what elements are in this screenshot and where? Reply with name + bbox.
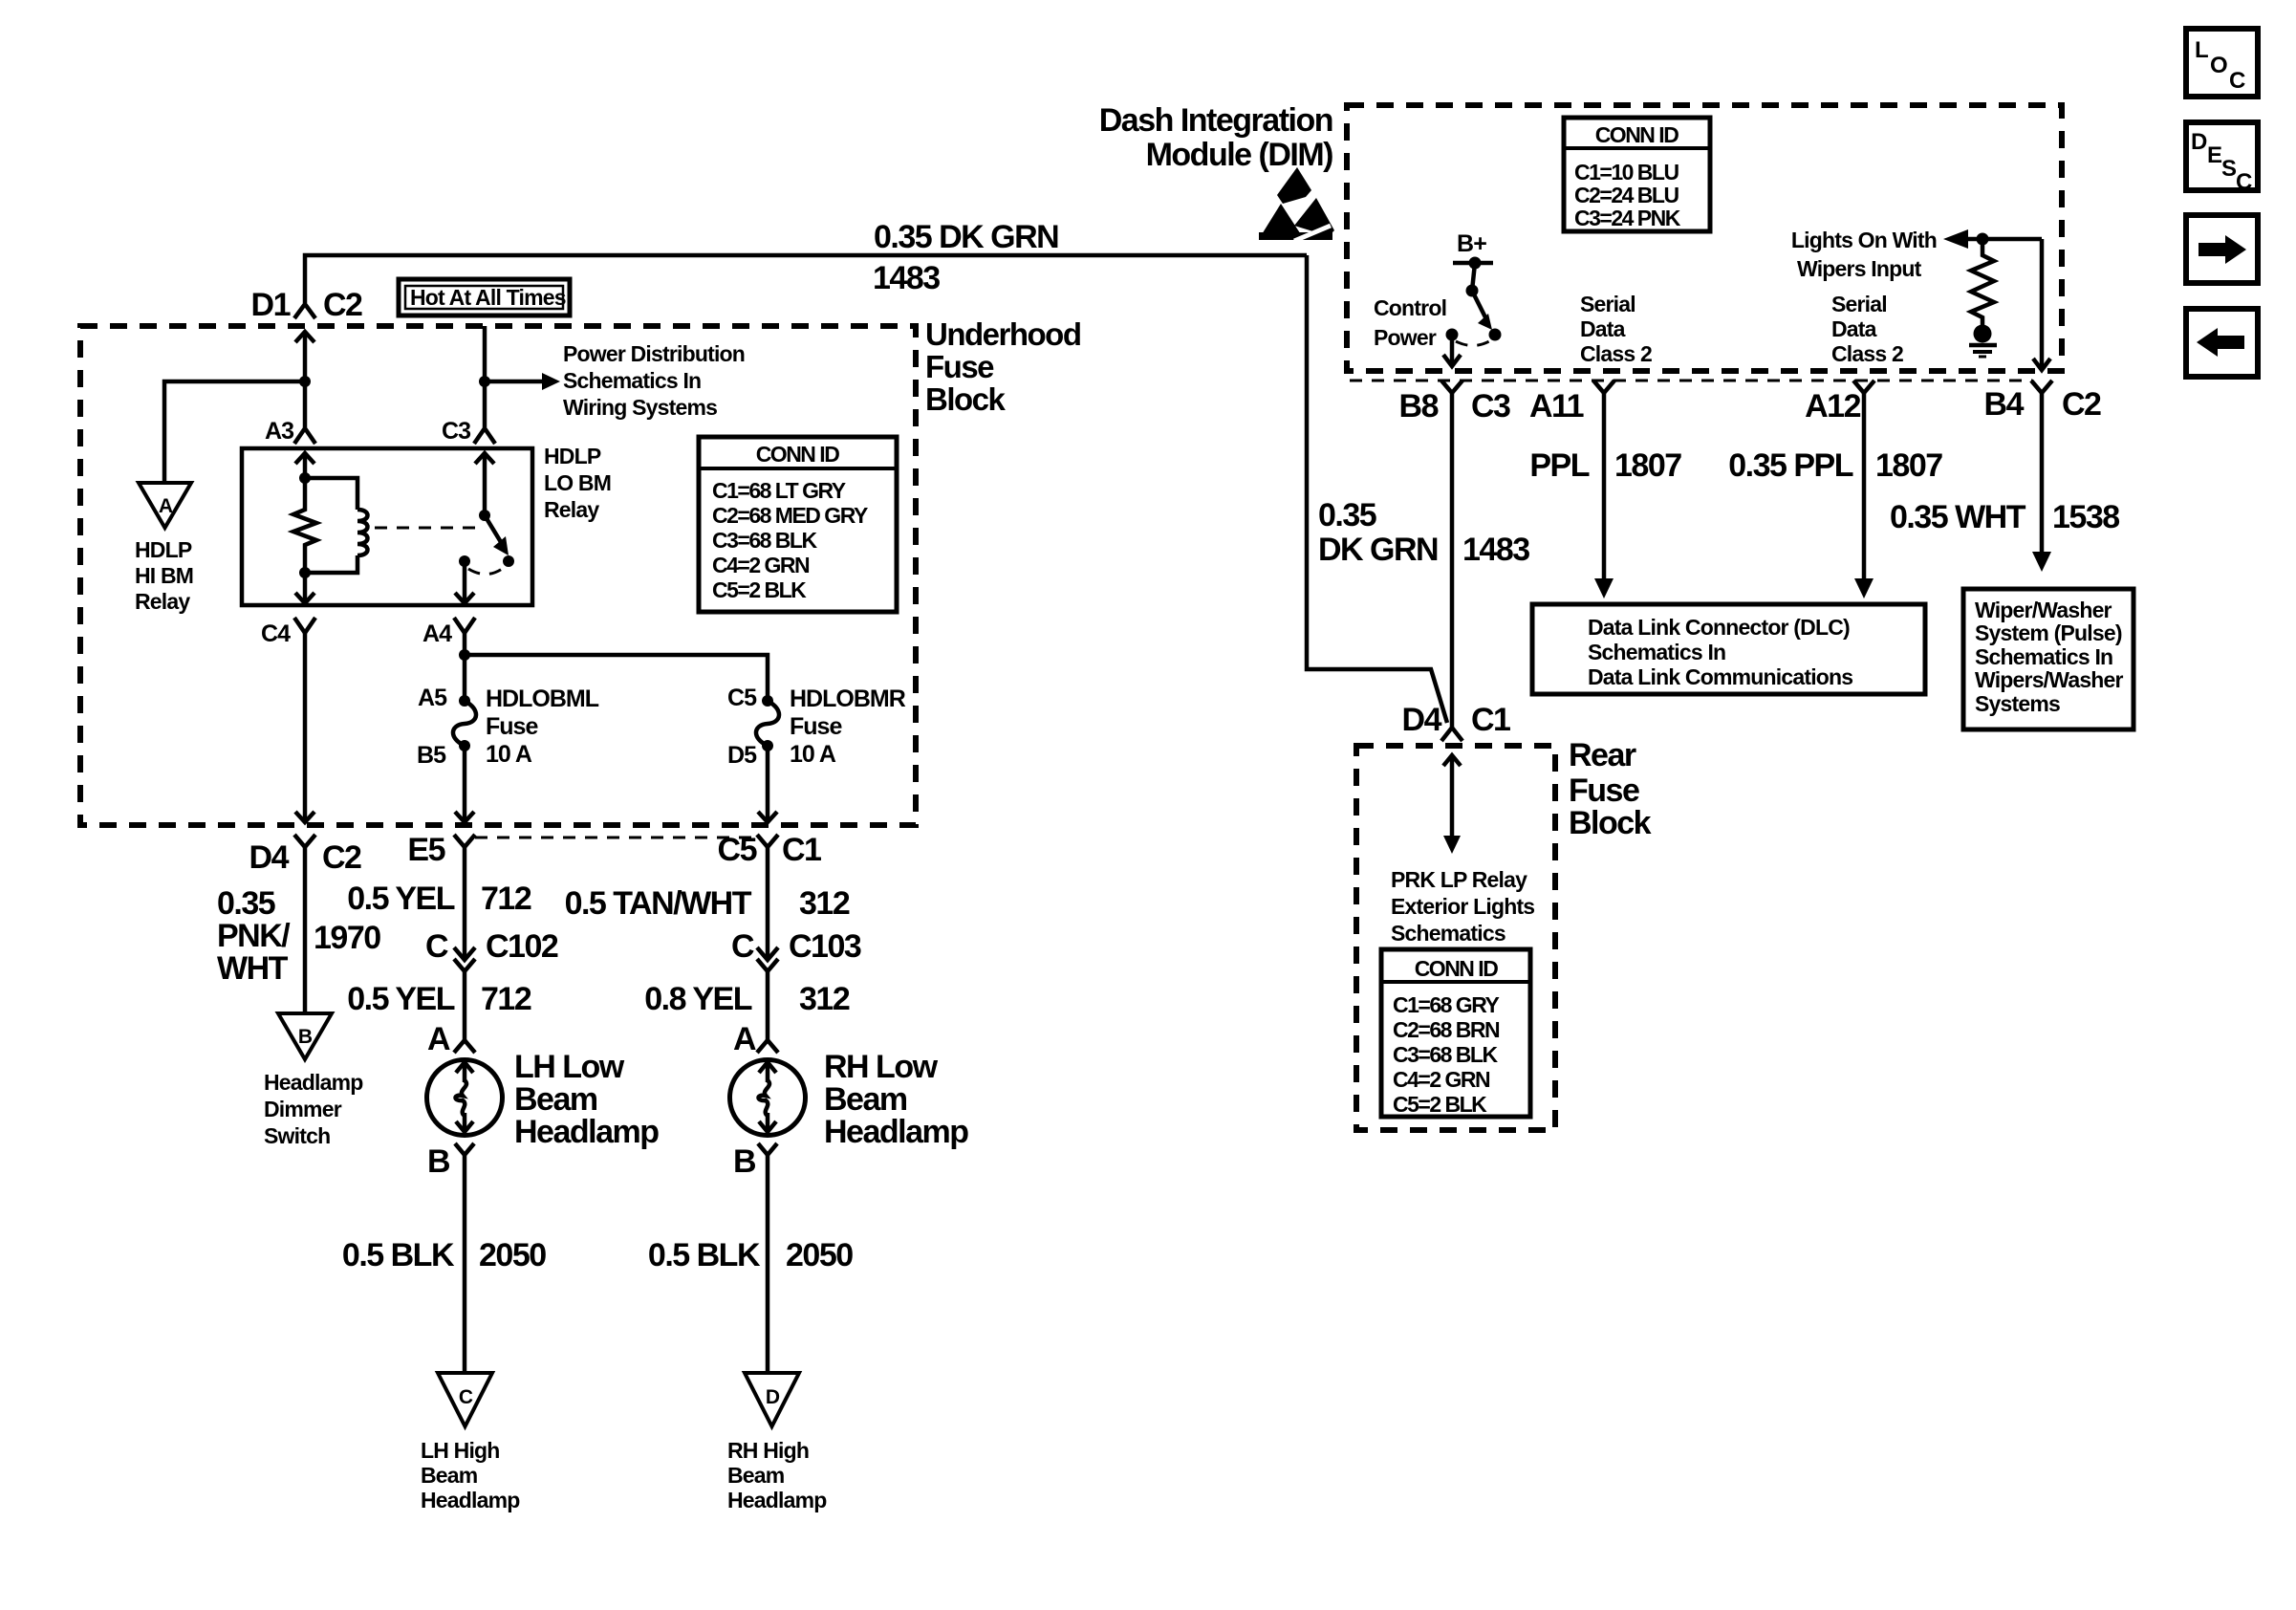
svg-text:B4: B4	[1984, 386, 2025, 423]
wire RH lamp ground	[766, 1155, 770, 1373]
svg-text:HI BM: HI BM	[135, 563, 193, 588]
node B5	[459, 740, 470, 751]
svg-text:Lights On With: Lights On With	[1791, 228, 1937, 252]
svg-text:A: A	[159, 495, 173, 517]
svg-text:Dimmer: Dimmer	[264, 1097, 342, 1121]
wire C4 down to border	[303, 633, 308, 822]
svg-text:C2: C2	[322, 839, 361, 876]
svg-text:C2: C2	[323, 287, 362, 323]
svg-text:CONN ID: CONN ID	[1595, 122, 1679, 147]
svg-text:Beam: Beam	[514, 1081, 597, 1118]
svg-text:System (Pulse): System (Pulse)	[1975, 620, 2122, 645]
svg-text:C: C	[459, 1386, 473, 1408]
wire A11 serial data with arrow	[1602, 393, 1607, 581]
wire D5 to border with down arrow	[766, 746, 770, 822]
svg-text:Schematics In: Schematics In	[1975, 644, 2112, 669]
control power switch blade	[1472, 291, 1486, 319]
svg-text:0.8 YEL: 0.8 YEL	[644, 981, 751, 1017]
node B+	[1469, 257, 1482, 270]
connector C1 DIM thin dashed link	[1350, 380, 2032, 382]
svg-text:0.35 DK GRN: 0.35 DK GRN	[874, 219, 1058, 255]
svg-text:Serial: Serial	[1580, 292, 1635, 316]
wire B8 down to rear fuse block	[1450, 393, 1455, 728]
next page arrow box	[2186, 215, 2258, 283]
off-page triangle A	[139, 483, 191, 528]
svg-text:Beam: Beam	[727, 1463, 785, 1488]
svg-text:C103: C103	[789, 928, 861, 965]
connector E5 fork	[454, 835, 475, 847]
relay switch common entry arrow	[483, 453, 487, 515]
svg-text:2050: 2050	[479, 1237, 546, 1273]
svg-text:10 A: 10 A	[486, 741, 532, 768]
svg-text:Fuse: Fuse	[925, 349, 994, 384]
svg-text:Headlamp: Headlamp	[727, 1488, 827, 1512]
previous page arrow box	[2186, 309, 2258, 377]
svg-text:Beam: Beam	[824, 1081, 907, 1118]
svg-text:C: C	[425, 928, 448, 965]
Rear Fuse Block dashed border	[1356, 746, 1555, 1130]
svg-text:Control: Control	[1374, 295, 1446, 320]
connector B fork RH lamp	[758, 1143, 777, 1155]
svg-text:Power: Power	[1374, 325, 1437, 350]
svg-text:B: B	[298, 1026, 313, 1048]
connector D4/C2 fork bottom	[294, 835, 315, 847]
svg-text:Switch: Switch	[264, 1123, 330, 1148]
relay switch dashed travel arc	[468, 567, 505, 575]
control power switch pivot node	[1466, 285, 1479, 297]
wire LH lamp ground	[463, 1155, 467, 1373]
node relay top junction	[299, 472, 311, 484]
relay box HDLP LO BM	[242, 448, 532, 605]
svg-text:C: C	[731, 928, 754, 965]
wire control power to B8 with down arrow	[1450, 335, 1455, 365]
svg-text:1538: 1538	[2052, 499, 2119, 535]
svg-text:10 A: 10 A	[790, 741, 836, 768]
control power dashed travel arc	[1456, 341, 1489, 346]
svg-text:Rear: Rear	[1569, 737, 1636, 773]
svg-text:Wiper/Washer: Wiper/Washer	[1975, 598, 2112, 622]
CONN ID table rear	[1381, 949, 1530, 1117]
svg-text:0.5 BLK: 0.5 BLK	[648, 1237, 761, 1273]
wire lights-on to B4 with down arrow	[2040, 239, 2045, 368]
svg-text:312: 312	[799, 981, 850, 1017]
connector C1 thin dashed link	[475, 837, 757, 839]
connector A fork RH lamp	[757, 1040, 778, 1053]
Dash Integration Module dashed border	[1347, 105, 2062, 371]
node A4 fuse feed junction	[459, 649, 470, 661]
svg-text:Exterior Lights: Exterior Lights	[1391, 894, 1534, 919]
CONN ID table underhood	[699, 437, 897, 612]
svg-text:LO BM: LO BM	[544, 470, 611, 495]
control power contact node	[1489, 329, 1502, 341]
svg-text:O: O	[2210, 53, 2228, 78]
svg-text:Class 2: Class 2	[1831, 341, 1903, 366]
ESD sensitivity symbol	[1259, 167, 1334, 241]
svg-text:C: C	[2229, 68, 2245, 94]
wire C102 to lamp	[463, 971, 467, 1040]
svg-text:PRK LP Relay: PRK LP Relay	[1391, 867, 1527, 892]
svg-text:HDLOBML: HDLOBML	[486, 685, 599, 712]
svg-text:C1=68 GRY: C1=68 GRY	[1393, 992, 1499, 1017]
B+ terminal bar	[1453, 261, 1493, 266]
inline connector C103	[757, 947, 778, 971]
connector A11 fork	[1593, 381, 1614, 393]
svg-text:S: S	[2221, 156, 2237, 182]
svg-text:D: D	[2191, 129, 2207, 155]
RH low beam headlamp bulb	[730, 1060, 806, 1136]
svg-text:Class 2: Class 2	[1580, 341, 1652, 366]
svg-text:RH High: RH High	[727, 1438, 809, 1463]
svg-text:Dash Integration: Dash Integration	[1099, 102, 1332, 139]
svg-text:LH Low: LH Low	[514, 1049, 625, 1085]
svg-text:Data: Data	[1580, 316, 1626, 341]
node junction C3 branch	[479, 376, 490, 387]
svg-text:LH High: LH High	[421, 1438, 500, 1463]
relay switch pole node	[459, 555, 470, 567]
svg-text:A: A	[733, 1021, 756, 1057]
svg-text:CONN ID: CONN ID	[1415, 956, 1499, 981]
svg-text:1483: 1483	[873, 260, 940, 296]
node D5	[762, 740, 773, 751]
svg-text:Data Link Connector (DLC): Data Link Connector (DLC)	[1588, 615, 1850, 640]
svg-text:1970: 1970	[314, 920, 380, 956]
svg-text:C4: C4	[261, 620, 291, 647]
svg-text:1807: 1807	[1614, 447, 1681, 484]
relay coil-side exit arrow	[303, 573, 308, 603]
svg-text:0.35: 0.35	[217, 885, 275, 922]
svg-text:Schematics: Schematics	[1391, 921, 1505, 946]
svg-text:Data Link Communications: Data Link Communications	[1588, 664, 1852, 689]
wire A12 serial data with arrow	[1862, 393, 1867, 581]
wire 0.35 DK GRN 1483 top horizontal	[305, 255, 1307, 303]
control power switch stem	[1472, 263, 1475, 291]
resistor relay	[293, 478, 316, 573]
relay switch contact node	[503, 555, 514, 567]
relay switch blade	[485, 515, 501, 542]
svg-text:A11: A11	[1529, 388, 1584, 424]
svg-text:E: E	[2207, 142, 2222, 168]
svg-text:Hot At All Times: Hot At All Times	[410, 285, 566, 310]
svg-text:Relay: Relay	[135, 589, 190, 614]
svg-text:DK GRN: DK GRN	[1318, 532, 1438, 568]
connector C3 fork	[474, 428, 495, 444]
CONN ID table DIM	[1564, 118, 1710, 231]
off-page triangle B	[278, 1013, 332, 1059]
Hot At All Times box	[399, 279, 570, 315]
svg-text:C5=2 BLK: C5=2 BLK	[712, 577, 807, 602]
svg-text:2050: 2050	[786, 1237, 853, 1273]
inline connector C102	[454, 947, 475, 971]
connector D1/C2 fork	[294, 304, 315, 318]
svg-text:Block: Block	[925, 381, 1007, 417]
wire D1 junction down to A3	[303, 381, 308, 427]
connector B fork LH lamp	[455, 1143, 474, 1155]
wire B4 wiper signal with arrow	[2040, 393, 2045, 555]
svg-text:Headlamp: Headlamp	[824, 1114, 968, 1150]
svg-text:C3=68 BLK: C3=68 BLK	[712, 528, 817, 553]
svg-text:312: 312	[799, 885, 850, 922]
wire C103 to lamp	[766, 971, 770, 1040]
svg-text:B+: B+	[1457, 230, 1486, 257]
LH low beam headlamp bulb	[427, 1060, 503, 1136]
svg-text:D5: D5	[727, 742, 757, 769]
svg-text:HDLP: HDLP	[135, 537, 192, 562]
connector D4/C1 fork rear	[1441, 728, 1462, 741]
Data Link Connector box	[1532, 604, 1925, 694]
relay coil-side entry arrow	[303, 453, 308, 478]
svg-text:L: L	[2195, 37, 2209, 63]
svg-text:Power Distribution: Power Distribution	[563, 341, 745, 366]
wire C5 down RH column	[766, 847, 770, 958]
svg-text:Schematics In: Schematics In	[1588, 640, 1725, 664]
svg-text:C102: C102	[486, 928, 558, 965]
wire D1 entry with up arrow	[303, 332, 308, 381]
connector C4 fork	[294, 618, 315, 633]
wire rear feed double arrow	[1443, 755, 1461, 854]
svg-text:Relay: Relay	[544, 497, 599, 522]
svg-text:0.35 WHT: 0.35 WHT	[1890, 499, 2026, 535]
svg-text:D4: D4	[1402, 702, 1442, 738]
connector A12 fork	[1853, 381, 1874, 393]
relay actuation dashed link	[375, 527, 478, 530]
svg-text:D4: D4	[249, 839, 290, 876]
svg-text:C5: C5	[727, 685, 757, 711]
svg-text:Fuse: Fuse	[790, 713, 842, 740]
wire to HDLP HI BM relay	[164, 381, 305, 483]
lights-on wiper input arrow	[1943, 229, 1968, 249]
wire D4 to headlamp dimmer switch	[303, 847, 308, 1013]
svg-text:C3=68 BLK: C3=68 BLK	[1393, 1042, 1498, 1067]
svg-text:0.5 BLK: 0.5 BLK	[342, 1237, 455, 1273]
svg-text:C2=68 MED GRY: C2=68 MED GRY	[712, 503, 868, 528]
fuse HDLOBMR	[756, 701, 779, 746]
svg-text:C2=68 BRN: C2=68 BRN	[1393, 1017, 1500, 1042]
svg-text:B: B	[733, 1143, 756, 1180]
svg-text:A4: A4	[422, 620, 452, 647]
svg-text:C4=2 GRN: C4=2 GRN	[712, 553, 810, 577]
svg-text:712: 712	[481, 981, 531, 1017]
svg-text:B8: B8	[1399, 388, 1439, 424]
connector B4/C2 fork	[2031, 381, 2052, 393]
svg-text:1807: 1807	[1875, 447, 1942, 484]
Wiper Washer system box	[1963, 589, 2134, 729]
svg-text:Systems: Systems	[1975, 691, 2060, 716]
relay coil	[305, 478, 368, 573]
svg-text:C3: C3	[1471, 388, 1510, 424]
wire B5 to border with down arrow	[463, 746, 467, 822]
relay switch pivot node	[479, 510, 490, 521]
svg-text:C1=10 BLU: C1=10 BLU	[1574, 160, 1679, 185]
svg-text:PPL: PPL	[1529, 447, 1589, 484]
node relay bottom junction	[299, 567, 311, 578]
svg-text:Wipers/Washer: Wipers/Washer	[1975, 667, 2124, 692]
svg-text:C1: C1	[1471, 702, 1510, 738]
svg-text:A12: A12	[1805, 388, 1860, 424]
relay output wire with down arrow	[463, 561, 467, 603]
svg-text:Headlamp: Headlamp	[514, 1114, 659, 1150]
off-page triangle D	[745, 1373, 799, 1426]
svg-text:WHT: WHT	[217, 950, 289, 987]
svg-text:A3: A3	[265, 418, 293, 445]
svg-text:Block: Block	[1569, 805, 1652, 841]
connector A3 fork	[294, 428, 315, 444]
control power pole node	[1446, 329, 1459, 341]
connector C5/C1 fork	[757, 835, 778, 847]
fuse HDLOBML	[453, 701, 476, 746]
node C5	[762, 695, 773, 707]
svg-text:B5: B5	[417, 742, 446, 769]
svg-text:B: B	[427, 1143, 450, 1180]
svg-text:Underhood: Underhood	[925, 316, 1080, 352]
ground DIM internal	[1969, 325, 1997, 358]
svg-text:C3=24 PNK: C3=24 PNK	[1574, 206, 1681, 230]
wire E5 down LH column	[463, 847, 467, 958]
svg-text:Wipers Input: Wipers Input	[1797, 256, 1922, 281]
wire A4 to fuses	[463, 633, 467, 701]
svg-text:D1: D1	[251, 287, 291, 323]
svg-text:E5: E5	[407, 832, 444, 868]
svg-text:Beam: Beam	[421, 1463, 478, 1488]
svg-text:Module (DIM): Module (DIM)	[1146, 137, 1333, 173]
svg-text:Schematics In: Schematics In	[563, 368, 701, 393]
svg-text:A5: A5	[418, 685, 447, 711]
svg-text:C: C	[2236, 169, 2252, 195]
svg-text:0.5 YEL: 0.5 YEL	[347, 881, 454, 917]
svg-text:0.5 TAN/WHT: 0.5 TAN/WHT	[565, 885, 752, 922]
svg-text:RH Low: RH Low	[824, 1049, 939, 1085]
wire arrow to Power Distribution	[485, 380, 544, 384]
svg-text:Headlamp: Headlamp	[264, 1070, 363, 1095]
svg-text:1483: 1483	[1462, 532, 1529, 568]
svg-text:0.5 YEL: 0.5 YEL	[347, 981, 454, 1017]
svg-text:0.35 PPL: 0.35 PPL	[1728, 447, 1852, 484]
svg-text:Data: Data	[1831, 316, 1877, 341]
svg-text:PNK/: PNK/	[217, 918, 291, 954]
svg-text:C1: C1	[782, 832, 821, 868]
connector A fork LH lamp	[454, 1040, 475, 1053]
DESC nav box	[2186, 122, 2258, 195]
svg-text:Fuse: Fuse	[486, 713, 538, 740]
svg-text:C4=2 GRN: C4=2 GRN	[1393, 1067, 1490, 1092]
svg-text:Wiring Systems: Wiring Systems	[563, 395, 717, 420]
svg-text:C1=68 LT GRY: C1=68 LT GRY	[712, 478, 846, 503]
node wiper input junction	[1977, 233, 1989, 246]
wire C3 feed from border	[483, 326, 487, 427]
svg-text:C2=24 BLU: C2=24 BLU	[1574, 183, 1679, 207]
svg-text:D: D	[766, 1386, 780, 1408]
svg-text:CONN ID: CONN ID	[756, 442, 840, 467]
svg-text:C5=2 BLK: C5=2 BLK	[1393, 1092, 1487, 1117]
svg-text:Headlamp: Headlamp	[421, 1488, 520, 1512]
node A5	[459, 695, 470, 707]
wire junction to HDLOBMR fuse	[465, 655, 768, 701]
off-page triangle C	[438, 1373, 492, 1426]
svg-text:HDLOBMR: HDLOBMR	[790, 685, 906, 712]
svg-text:A: A	[427, 1021, 450, 1057]
svg-text:HDLP: HDLP	[544, 444, 601, 468]
resistor pull-up DIM	[1971, 239, 1994, 325]
Underhood Fuse Block dashed border	[80, 326, 916, 825]
svg-text:Serial: Serial	[1831, 292, 1887, 316]
svg-text:C3: C3	[442, 418, 470, 445]
connector A4 fork	[454, 618, 475, 633]
svg-text:0.35: 0.35	[1318, 497, 1376, 533]
connector B8/C3 fork	[1441, 381, 1462, 393]
svg-text:Fuse: Fuse	[1569, 772, 1639, 809]
svg-text:C2: C2	[2062, 386, 2101, 423]
LOC nav box	[2186, 29, 2258, 97]
wire 0.35 DK GRN branch to rear fuse block	[1307, 255, 1447, 723]
node junction D1 branch	[299, 376, 311, 387]
svg-text:712: 712	[481, 881, 531, 917]
